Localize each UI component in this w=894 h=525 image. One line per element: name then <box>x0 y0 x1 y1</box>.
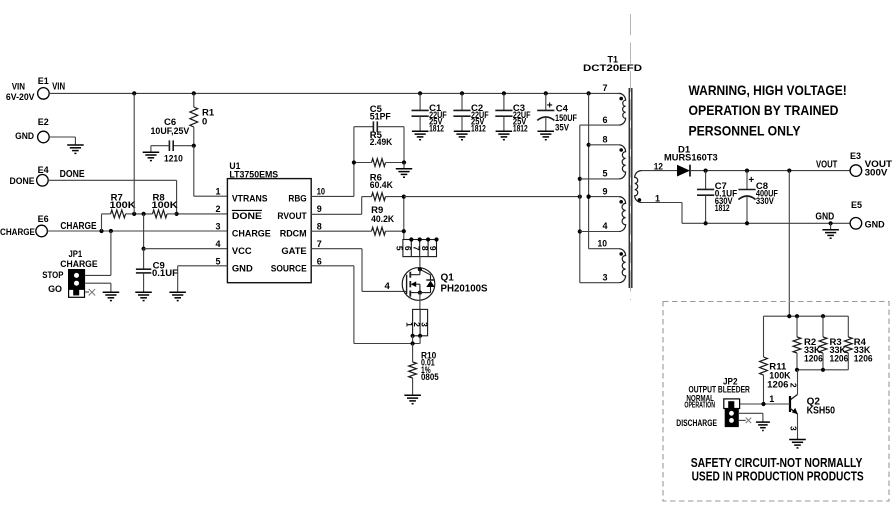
wire GATE pin 7 <box>311 249 406 292</box>
ground at C1 <box>412 131 429 139</box>
svg-text:5: 5 <box>215 256 220 266</box>
wire drain to transformer <box>404 195 582 199</box>
svg-text:100K: 100K <box>152 200 178 211</box>
svg-text:STOP: STOP <box>42 270 64 281</box>
svg-text:GND: GND <box>815 212 834 223</box>
ground at C3 <box>496 131 512 139</box>
T1 primary winding 10-3 <box>619 249 626 283</box>
ground at C9 <box>135 292 152 300</box>
svg-text:100K: 100K <box>110 200 136 211</box>
terminal E2 GND <box>15 117 75 145</box>
T1 primary bus VIN side <box>587 93 619 248</box>
warning text <box>689 83 847 139</box>
wire VIN to R7/R8 node <box>133 93 135 213</box>
T1 pin 8 wire <box>589 135 619 145</box>
U1 pin names right <box>271 193 307 274</box>
svg-text:GATE: GATE <box>281 245 306 256</box>
wire Q1 source to pin box <box>419 293 421 310</box>
svg-text:6: 6 <box>317 256 322 266</box>
svg-text:VCC: VCC <box>232 245 252 256</box>
svg-text:WARNING, HIGH VOLTAGE!: WARNING, HIGH VOLTAGE! <box>689 83 847 98</box>
svg-text:1206: 1206 <box>804 354 823 365</box>
svg-text:300V: 300V <box>865 167 888 178</box>
capacitor C6 <box>151 117 196 165</box>
wire DONE net <box>48 180 227 216</box>
U1 pin numbers right <box>317 187 325 267</box>
wire CHARGE net <box>47 229 227 233</box>
ground at C6 <box>143 152 160 160</box>
svg-text:6V-20V: 6V-20V <box>6 92 35 103</box>
svg-text:E6: E6 <box>38 214 49 224</box>
svg-text:GND: GND <box>232 263 253 274</box>
op-amp U1 LT3750EMS body <box>227 161 311 283</box>
svg-text:9: 9 <box>317 204 322 214</box>
ground at U1 GND pin <box>169 292 186 300</box>
wire JP1 pin3 stub <box>85 289 95 296</box>
terminal E1 VIN <box>6 76 65 103</box>
wire VIN rail <box>49 91 620 95</box>
svg-text:0.1UF: 0.1UF <box>152 268 178 279</box>
svg-text:1210: 1210 <box>164 154 183 165</box>
svg-text:MURS160T3: MURS160T3 <box>664 153 718 164</box>
wire JP2 pin2 to ground <box>739 413 763 422</box>
wire drain box to Q1 <box>419 257 421 270</box>
wire JP1 pin2 to ground <box>85 283 111 292</box>
capacitor C9 <box>136 249 178 292</box>
capacitor C5 <box>354 104 404 163</box>
svg-text:Q1: Q1 <box>441 273 455 284</box>
svg-text:GND: GND <box>15 131 34 142</box>
resistor R11 <box>760 316 791 404</box>
ground at C2 <box>454 131 470 139</box>
svg-text:10: 10 <box>317 187 325 197</box>
svg-text:1: 1 <box>215 187 220 197</box>
svg-text:3: 3 <box>215 222 220 232</box>
svg-text:RVOUT: RVOUT <box>277 210 307 221</box>
transformer T1 labels <box>583 55 642 74</box>
svg-text:+: + <box>748 175 754 186</box>
safety circuit dashed box <box>663 302 889 502</box>
wire VCC node vertical <box>142 214 146 251</box>
resistor R6 <box>362 173 404 201</box>
svg-text:1812: 1812 <box>715 203 730 214</box>
svg-text:8: 8 <box>317 222 322 232</box>
safety top rail <box>764 314 849 318</box>
resistor R2 <box>793 316 823 370</box>
T1 primary winding 9-4 <box>619 197 626 232</box>
svg-text:4: 4 <box>603 221 608 231</box>
svg-text:E4: E4 <box>38 165 49 175</box>
jumper JP1 <box>42 249 97 297</box>
svg-text:60.4K: 60.4K <box>370 180 393 191</box>
terminal E6 CHARGE <box>0 214 97 238</box>
svg-text:1812: 1812 <box>429 123 444 134</box>
wire JP2 pin3 stub <box>739 418 751 424</box>
svg-text:E5: E5 <box>851 200 862 210</box>
safety bottom rail <box>795 368 848 372</box>
wire RVOUT pin 9 <box>311 197 362 215</box>
resistor R9 <box>311 205 404 235</box>
svg-text:1812: 1812 <box>471 123 486 134</box>
svg-text:40.2K: 40.2K <box>371 214 394 225</box>
svg-text:USED IN PRODUCTION PRODUCTS: USED IN PRODUCTION PRODUCTS <box>692 469 864 484</box>
wire secondary return <box>642 203 683 224</box>
svg-text:CHARGE: CHARGE <box>232 228 271 239</box>
ground at C4 <box>538 131 555 139</box>
wire GND pin 5 <box>178 266 228 292</box>
transistor Q2 KSH50 <box>788 370 835 440</box>
T1 primary winding 7-6 <box>619 93 626 125</box>
svg-text:CHARGE: CHARGE <box>60 221 96 232</box>
wire RBG pin 10 <box>311 127 354 197</box>
svg-text:E1: E1 <box>38 76 49 86</box>
svg-text:DONE: DONE <box>60 169 85 180</box>
wire VOUT rail <box>690 159 850 172</box>
wire VOUT to bleeder <box>788 171 790 317</box>
wire JP1 pin1 to CHARGE <box>85 231 111 275</box>
terminal E3 VOUT <box>850 151 892 178</box>
diode D1 MURS160T3 <box>642 145 718 177</box>
isolation barrier dashed line <box>630 14 632 300</box>
U1 pin names left <box>232 193 271 274</box>
svg-text:DONE: DONE <box>10 176 35 187</box>
svg-text:GND: GND <box>865 220 885 231</box>
svg-text:7: 7 <box>317 239 322 249</box>
svg-text:3: 3 <box>419 322 429 327</box>
svg-text:3: 3 <box>603 272 608 282</box>
svg-text:SOURCE: SOURCE <box>271 263 307 274</box>
svg-text:2: 2 <box>788 383 798 388</box>
wire SOURCE pin 6 return <box>311 266 420 346</box>
svg-text:OPERATION: OPERATION <box>684 399 715 409</box>
resistor R3 <box>819 316 848 370</box>
capacitor C7 <box>697 171 737 224</box>
svg-text:2: 2 <box>215 204 220 214</box>
svg-text:3: 3 <box>788 426 798 431</box>
terminal E4 DONE <box>10 165 85 187</box>
svg-text:VTRANS: VTRANS <box>232 193 268 204</box>
svg-text:5: 5 <box>603 169 608 179</box>
svg-text:51PF: 51PF <box>370 111 391 122</box>
ground at E2 <box>67 145 84 153</box>
svg-text:1206: 1206 <box>767 379 788 390</box>
capacitor C8 (polarized) <box>738 171 778 224</box>
svg-text:4: 4 <box>215 239 220 249</box>
T1 primary winding 8-5 <box>619 145 626 179</box>
svg-text:0: 0 <box>202 117 207 128</box>
svg-text:0805: 0805 <box>421 372 439 383</box>
svg-text:10: 10 <box>598 238 608 248</box>
resistor R10 <box>409 344 440 396</box>
resistor R1 <box>190 93 215 145</box>
svg-text:LT3750EMS: LT3750EMS <box>229 170 278 181</box>
capacitor C3 <box>495 93 530 134</box>
resistor R8 <box>132 192 178 218</box>
svg-text:330V: 330V <box>756 196 775 207</box>
svg-text:1206: 1206 <box>854 354 873 365</box>
capacitor C4 (polarized) <box>537 93 577 133</box>
resistor R7 <box>102 192 136 231</box>
wire Q2 base <box>740 394 790 406</box>
ground at Q2 emitter <box>789 440 806 448</box>
svg-text:2.49K: 2.49K <box>370 137 393 148</box>
wire drain node vertical <box>402 195 406 240</box>
svg-text:6: 6 <box>603 115 608 125</box>
ground at JP2 <box>756 422 770 430</box>
T1 primary bus drain side <box>578 125 619 283</box>
ground at JP1 <box>103 292 120 300</box>
svg-text:8: 8 <box>603 135 608 145</box>
svg-text:DONE: DONE <box>232 210 262 221</box>
capacitor C1 <box>412 93 447 134</box>
resistor R4 <box>844 316 872 370</box>
svg-text:DCT20EFD: DCT20EFD <box>583 63 642 74</box>
svg-text:4: 4 <box>385 281 391 292</box>
transistor Q1 PH20100S <box>402 267 488 300</box>
svg-text:DISCHARGE: DISCHARGE <box>676 418 717 428</box>
terminal E5 GND <box>850 200 885 231</box>
resistor R5 <box>352 130 406 169</box>
svg-text:12: 12 <box>654 161 663 171</box>
connector Q1 source pins 1-3 <box>404 309 429 343</box>
svg-text:10UF,25V: 10UF,25V <box>151 126 190 137</box>
svg-text:1812: 1812 <box>513 123 528 134</box>
T1 pin 9 wire <box>587 186 619 198</box>
jumper JP2 <box>676 377 750 429</box>
T1 pin 5 wire <box>580 169 619 179</box>
T1 secondary winding 12-1 <box>635 161 663 203</box>
svg-text:9: 9 <box>603 186 608 196</box>
svg-text:KSH50: KSH50 <box>807 405 836 416</box>
svg-text:1: 1 <box>769 394 774 404</box>
svg-text:PERSONNEL ONLY: PERSONNEL ONLY <box>689 123 801 138</box>
wire VTRANS pin 1 <box>194 146 228 197</box>
svg-text:VOUT: VOUT <box>816 159 837 170</box>
svg-text:+: + <box>547 100 553 111</box>
svg-text:E2: E2 <box>38 117 49 127</box>
ground at output <box>822 230 839 238</box>
svg-text:CHARGE: CHARGE <box>0 227 35 238</box>
T1 pin labels 7 6 10 3 <box>598 83 608 282</box>
svg-text:9: 9 <box>428 246 438 251</box>
svg-text:CHARGE: CHARGE <box>60 259 97 270</box>
svg-text:VIN: VIN <box>52 82 65 93</box>
capacitor C2 <box>453 93 488 134</box>
T1 core <box>629 88 632 288</box>
ground at R10 <box>404 395 421 403</box>
ground at R5 <box>396 169 412 177</box>
safety caption <box>691 455 864 484</box>
svg-text:PH20100S: PH20100S <box>441 283 488 294</box>
svg-text:35V: 35V <box>555 122 570 133</box>
svg-text:OPERATION BY TRAINED: OPERATION BY TRAINED <box>689 103 839 118</box>
svg-text:RBG: RBG <box>288 193 306 204</box>
connector Q1 drain pins 5-9 <box>395 237 439 256</box>
wire VCC pin 4 <box>144 248 228 250</box>
svg-text:E3: E3 <box>850 151 861 161</box>
svg-text:RDCM: RDCM <box>280 228 307 239</box>
svg-text:1206: 1206 <box>830 354 849 365</box>
svg-text:GO: GO <box>48 284 62 295</box>
wire output GND rail <box>682 212 850 230</box>
svg-text:7: 7 <box>603 83 608 93</box>
T1 pin 4 wire <box>580 221 619 231</box>
U1 pin numbers left <box>215 187 220 267</box>
